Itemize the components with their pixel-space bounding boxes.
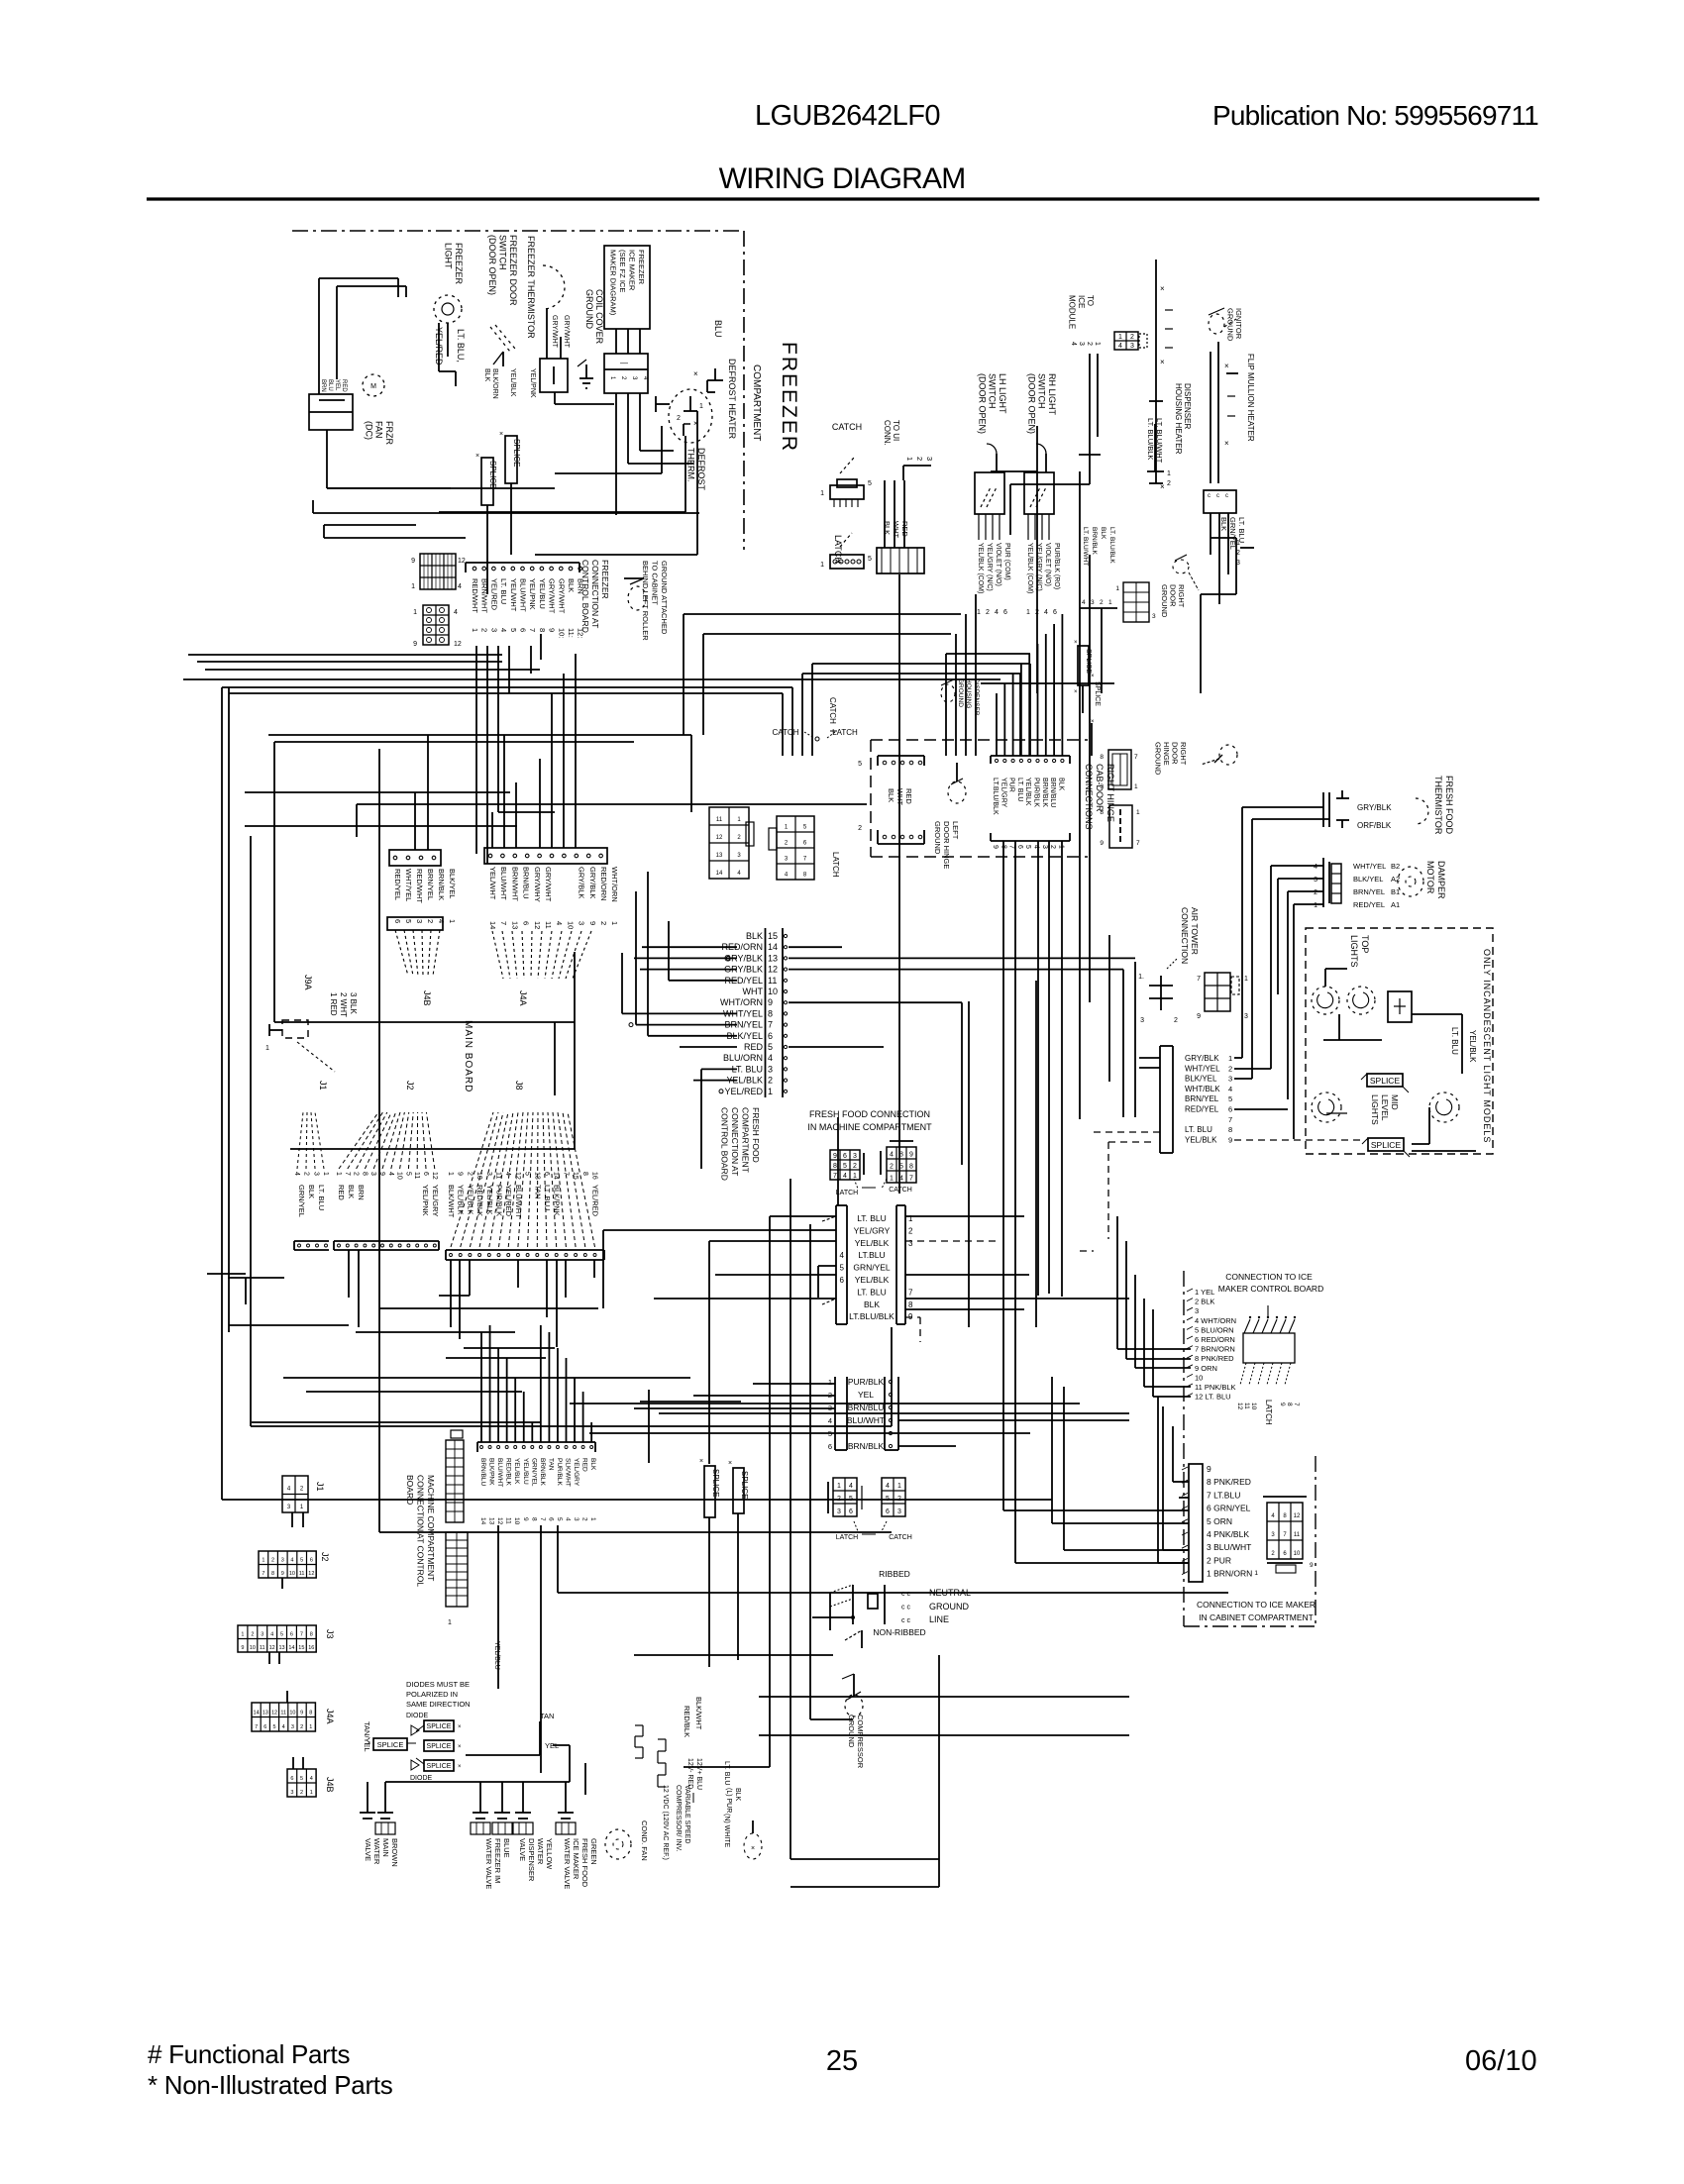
- wire: [1163, 1406, 1189, 1550]
- svg-text:LIGHTS: LIGHTS: [1349, 935, 1359, 968]
- J4B pin numbers: [387, 917, 457, 930]
- svg-text:DOOR HINGE: DOOR HINGE: [942, 821, 951, 869]
- svg-text:LGUB2642LF0: LGUB2642LF0: [755, 100, 940, 132]
- ground symbol: [624, 578, 646, 610]
- wire: [628, 463, 693, 465]
- J4B connector: [389, 850, 441, 866]
- water valve: [492, 1795, 512, 1834]
- svg-text:PUR (COM): PUR (COM): [1003, 543, 1010, 580]
- frzr fan label: [364, 421, 394, 445]
- svg-text:4 PNK/BLK: 4 PNK/BLK: [1207, 1529, 1249, 1539]
- svg-text:FREEZER: FREEZER: [454, 243, 464, 285]
- svg-text:8: 8: [530, 1517, 537, 1521]
- neutral ground line pins: [901, 1591, 910, 1624]
- svg-text:8: 8: [803, 872, 807, 878]
- damper labels: [1353, 862, 1400, 909]
- svg-text:# Functional Parts: # Functional Parts: [148, 2039, 350, 2069]
- run cap bulb: [744, 1820, 762, 1859]
- svg-text:7: 7: [499, 921, 508, 925]
- bus wire: [268, 735, 691, 812]
- J4A connector: [484, 848, 607, 864]
- to ice module pins: [1070, 342, 1101, 346]
- svg-text:TOP: TOP: [1360, 935, 1370, 953]
- svg-text:WATER: WATER: [536, 1838, 545, 1865]
- wire: [517, 1260, 519, 1288]
- svg-text:YEL/BLK (COM): YEL/BLK (COM): [977, 543, 984, 593]
- J2 label: [405, 1081, 415, 1091]
- svg-text:5: 5: [272, 1724, 275, 1730]
- svg-text:1: 1: [1026, 609, 1030, 616]
- svg-text:3: 3: [415, 919, 424, 923]
- wire: [905, 1215, 1024, 1217]
- blk/wht label: [694, 1697, 703, 1730]
- svg-text:IN MACHINE COMPARTMENT: IN MACHINE COMPARTMENT: [807, 1122, 932, 1132]
- bus wire: [812, 663, 1000, 665]
- lt blu label: [1450, 1027, 1459, 1055]
- bus wire: [207, 1274, 284, 1304]
- svg-text:4: 4: [310, 1776, 313, 1782]
- svg-text:CONNECTION AT: CONNECTION AT: [730, 1107, 740, 1176]
- svg-text:LT. BLU: LT. BLU: [857, 1213, 887, 1223]
- svg-text:2: 2: [300, 1790, 303, 1796]
- svg-text:c: c: [1225, 493, 1228, 499]
- svg-text:5: 5: [556, 1517, 563, 1521]
- svg-text:BLK: BLK: [1100, 527, 1106, 540]
- svg-text:IN CABINET COMPARTMENT: IN CABINET COMPARTMENT: [1199, 1612, 1314, 1622]
- svg-text:×: ×: [458, 1744, 462, 1750]
- svg-text:LATCH: LATCH: [833, 535, 843, 564]
- svg-text:10: 10: [1195, 1373, 1203, 1382]
- svg-text:9: 9: [457, 1172, 464, 1176]
- wire: [640, 969, 737, 971]
- svg-text:3: 3: [1271, 1532, 1275, 1538]
- footer page number: [826, 2045, 858, 2077]
- hatched connector 12pin: [411, 554, 466, 590]
- svg-text:LT. BLU: LT. BLU: [723, 1761, 730, 1785]
- air tower label: [1180, 907, 1200, 964]
- svg-text:BROWN: BROWN: [390, 1838, 399, 1867]
- svg-text:13: 13: [510, 921, 519, 929]
- wire: [1153, 1309, 1191, 1397]
- svg-text:13: 13: [488, 1517, 495, 1525]
- svg-text:GROUND: GROUND: [929, 1602, 969, 1612]
- svg-text:5: 5: [899, 1163, 903, 1170]
- freezer compartment boundary right: [743, 231, 745, 550]
- diode label 2: [410, 1775, 433, 1782]
- svg-text:YEL/RED: YEL/RED: [489, 578, 498, 611]
- svg-text:LATCH: LATCH: [832, 728, 858, 737]
- svg-text:5: 5: [843, 1163, 847, 1170]
- right hinge title: [1084, 764, 1115, 830]
- svg-text:4: 4: [737, 871, 741, 877]
- svg-text:RED/BLK: RED/BLK: [475, 1185, 484, 1216]
- wire: [789, 957, 1135, 959]
- svg-text:5: 5: [280, 1632, 283, 1638]
- svg-text:7: 7: [255, 1724, 258, 1730]
- svg-text:12 VDC (120V AC REF.): 12 VDC (120V AC REF.): [662, 1785, 669, 1860]
- svg-text:LT. BLU: LT. BLU: [317, 1185, 326, 1210]
- svg-text:GROUND: GROUND: [1225, 308, 1234, 342]
- svg-text:6: 6: [310, 1558, 313, 1564]
- wire: [938, 1655, 940, 1887]
- svg-text:2 WHT: 2 WHT: [339, 992, 348, 1017]
- svg-text:J1: J1: [318, 1081, 328, 1091]
- J8 connector bracket: [446, 1250, 604, 1260]
- bus wire: [945, 654, 947, 756]
- svg-text:YEL/GRY: YEL/GRY: [573, 1458, 579, 1487]
- wire: [905, 1274, 1029, 1276]
- svg-text:2: 2: [1100, 599, 1104, 606]
- J4A fanout: [492, 931, 591, 979]
- wire: [466, 1721, 540, 1755]
- svg-text:4: 4: [886, 1483, 890, 1490]
- svg-text:HOUSING HEATER: HOUSING HEATER: [1174, 383, 1183, 455]
- footer date: [1465, 2045, 1537, 2077]
- cab-door tl labels: [887, 788, 913, 805]
- svg-text:1: 1: [853, 1173, 857, 1180]
- svg-text:12: 12: [496, 1517, 503, 1525]
- svg-text:3: 3: [1195, 1306, 1199, 1315]
- svg-text:11: 11: [505, 1517, 512, 1524]
- svg-text:11: 11: [260, 1645, 265, 1651]
- right door hinge ground label: [1154, 742, 1189, 776]
- wire: [493, 1525, 500, 1689]
- svg-text:10: 10: [289, 1710, 295, 1716]
- svg-text:×: ×: [1074, 640, 1078, 646]
- svg-text:5: 5: [858, 761, 862, 768]
- frzr fan wire labels: [320, 379, 347, 392]
- svg-text:10: 10: [768, 987, 778, 996]
- wire: [1271, 866, 1294, 1139]
- svg-text:2: 2: [986, 609, 990, 616]
- svg-text:3: 3: [785, 856, 789, 862]
- wire: [531, 1422, 533, 1442]
- svg-text:2: 2: [785, 840, 789, 846]
- svg-text:8: 8: [899, 1151, 903, 1158]
- fresh food cb title: [720, 1107, 762, 1181]
- svg-text:(L) PUR: (L) PUR: [725, 1788, 732, 1813]
- svg-text:1: 1: [309, 1724, 312, 1730]
- svg-text:6: 6: [849, 1508, 853, 1515]
- wire: [789, 970, 1123, 1117]
- bus wire: [464, 1347, 555, 1349]
- wire: [1158, 1397, 1189, 1563]
- svg-text:YEL/BLU: YEL/BLU: [493, 1641, 500, 1670]
- incandescent label: [1482, 949, 1492, 1143]
- dispenser housing ground label: [957, 678, 980, 716]
- svg-text:2: 2: [853, 1163, 857, 1170]
- svg-text:* Non-Illustrated Parts: * Non-Illustrated Parts: [148, 2070, 393, 2100]
- bus wire: [1134, 962, 1136, 1117]
- svg-text:BLK/PNK: BLK/PNK: [488, 1458, 495, 1486]
- svg-text:×: ×: [1160, 284, 1165, 293]
- svg-text:1: 1: [411, 583, 415, 590]
- incandescent dashed box: [1306, 928, 1493, 1154]
- svg-text:CONNECTION AT: CONNECTION AT: [590, 560, 600, 628]
- card edge connector: [1100, 750, 1138, 790]
- svg-text:12: 12: [716, 835, 723, 841]
- bus wire: [791, 687, 793, 756]
- svg-text:11: 11: [716, 817, 723, 823]
- svg-text:FRESH FOOD CONNECTION: FRESH FOOD CONNECTION: [809, 1109, 930, 1119]
- freezer ice maker connector: [604, 354, 648, 393]
- svg-text:×: ×: [699, 1458, 703, 1465]
- svg-text:7: 7: [344, 1172, 351, 1176]
- svg-text:1: 1: [820, 490, 824, 497]
- svg-text:LT.BLU: LT.BLU: [858, 1250, 885, 1260]
- wire: [616, 393, 640, 515]
- svg-text:YEL/WHT: YEL/WHT: [488, 867, 497, 900]
- svg-text:c c: c c: [901, 1617, 910, 1624]
- compressor inv label: [675, 1785, 690, 1851]
- wire: [905, 1317, 920, 1342]
- svg-text:14: 14: [553, 1172, 560, 1180]
- svg-text:GROUND: GROUND: [957, 678, 964, 707]
- bus wire: [802, 673, 991, 675]
- svg-text:1: 1: [447, 1172, 454, 1176]
- svg-text:BLK: BLK: [1219, 517, 1228, 531]
- svg-text:SPLICE: SPLICE: [427, 1763, 452, 1770]
- machine 14pin numbers: [479, 1517, 596, 1525]
- wire: [622, 953, 737, 1013]
- svg-text:8: 8: [538, 628, 547, 632]
- svg-text:LEFT: LEFT: [951, 821, 960, 840]
- wire: [715, 1274, 836, 1276]
- n white label: [723, 1814, 730, 1848]
- svg-text:GROUND ATTACHED: GROUND ATTACHED: [660, 561, 669, 635]
- valve label brown: [364, 1838, 399, 1867]
- svg-text:(N) WHITE: (N) WHITE: [723, 1814, 730, 1848]
- svg-text:TO: TO: [1086, 295, 1095, 306]
- svg-text:6: 6: [768, 1031, 773, 1041]
- svg-text:LT. BLU: LT. BLU: [857, 1287, 887, 1297]
- svg-text:7 BRN/ORN: 7 BRN/ORN: [1195, 1345, 1235, 1354]
- wire: [898, 1445, 956, 1447]
- svg-text:WHT/ORN: WHT/ORN: [610, 867, 619, 902]
- ground label: [929, 1602, 969, 1612]
- J9A label: [303, 975, 313, 990]
- svg-text:3: 3: [261, 1632, 263, 1638]
- svg-text:GRY/WHY: GRY/WHY: [533, 867, 542, 902]
- bus wire: [379, 1531, 892, 1533]
- svg-text:3: 3: [1100, 783, 1104, 790]
- wire: [498, 646, 555, 812]
- damper connector: [1323, 858, 1341, 907]
- svg-text:J8: J8: [514, 1081, 524, 1091]
- svg-text:6: 6: [1016, 845, 1023, 849]
- svg-text:3: 3: [291, 1724, 294, 1730]
- wire: [719, 1090, 723, 1093]
- svg-text:BRN: BRN: [320, 379, 326, 392]
- bus wire: [251, 1425, 892, 1427]
- svg-text:7: 7: [562, 1172, 569, 1176]
- svg-text:2: 2: [300, 1724, 303, 1730]
- bus wire: [589, 1432, 1030, 1434]
- J2 connector labels: [337, 1185, 440, 1216]
- svg-text:BLK/WHT: BLK/WHT: [694, 1697, 703, 1730]
- wire: [1271, 866, 1323, 904]
- catch label: [832, 422, 862, 432]
- ice cabinet title: [1197, 1600, 1316, 1622]
- bus wire: [252, 1421, 541, 1423]
- J2 table label: [320, 1552, 330, 1562]
- svg-text:12: 12: [514, 1172, 521, 1180]
- svg-text:3: 3: [631, 376, 637, 380]
- J1 fanout: [297, 1112, 324, 1169]
- svg-text:COMPRESSOR: COMPRESSOR: [856, 1715, 865, 1769]
- machine conn grid right: [882, 1478, 905, 1516]
- bus wire: [554, 1022, 556, 1095]
- svg-text:VIOLET (N/O): VIOLET (N/O): [995, 543, 1001, 586]
- red/blk label: [683, 1706, 691, 1737]
- ice maker board symbol: [1240, 1305, 1296, 1385]
- svg-text:6: 6: [543, 1172, 550, 1176]
- bus wire: [968, 1001, 970, 1327]
- wire: [1135, 1275, 1191, 1368]
- machine 14pin pins: [480, 1446, 593, 1449]
- fresh food cb pins: [784, 934, 787, 1092]
- svg-text:LIGHT: LIGHT: [444, 243, 454, 269]
- bus wire: [991, 674, 1020, 756]
- svg-text:BRN/BLU: BRN/BLU: [479, 1458, 486, 1486]
- svg-text:GROUND: GROUND: [933, 821, 942, 855]
- svg-text:14: 14: [488, 921, 497, 929]
- wire: [654, 1299, 836, 1304]
- non-ribbed label: [873, 1627, 925, 1637]
- svg-text:10: 10: [396, 1172, 403, 1180]
- svg-text:LINE: LINE: [929, 1614, 949, 1624]
- svg-text:J4B: J4B: [325, 1777, 335, 1793]
- valve drop wires: [385, 1763, 585, 1795]
- bus wire: [274, 1021, 575, 1023]
- air tower sym2: [1197, 973, 1248, 1020]
- svg-text:THERM.: THERM.: [686, 448, 696, 482]
- svg-text:SPLICE: SPLICE: [1371, 1140, 1402, 1150]
- svg-text:GRN/YEL: GRN/YEL: [853, 1263, 891, 1273]
- svg-text:SPLICE: SPLICE: [488, 461, 497, 488]
- svg-text:WATER: WATER: [372, 1838, 381, 1865]
- svg-text:BLK/YEL: BLK/YEL: [448, 869, 457, 898]
- svg-text:FRESH FOOD: FRESH FOOD: [1444, 776, 1454, 835]
- svg-text:1: 1: [413, 609, 417, 616]
- svg-text:11: 11: [495, 1172, 502, 1179]
- svg-text:YEL/BLK: YEL/BLK: [1185, 1135, 1217, 1144]
- J8 connector labels: [447, 1185, 600, 1218]
- svg-text:3: 3: [1152, 613, 1156, 620]
- svg-text:GRN/YEL: GRN/YEL: [530, 1458, 537, 1487]
- tan label: [540, 1712, 554, 1720]
- damper pins: [1314, 864, 1317, 909]
- svg-text:BLK: BLK: [347, 1185, 356, 1198]
- bus wire: [570, 1403, 1080, 1404]
- freezer cb pin numbers: [471, 628, 585, 638]
- svg-text:1: 1: [977, 609, 981, 616]
- svg-text:1: 1: [609, 376, 615, 380]
- svg-text:4: 4: [270, 1632, 273, 1638]
- svg-text:BRN: BRN: [357, 1185, 366, 1200]
- svg-text:14: 14: [288, 1645, 294, 1651]
- hatched connector 12pin b: [413, 605, 462, 648]
- freezer thermistor body: [540, 359, 568, 392]
- svg-text:3: 3: [1140, 1017, 1144, 1024]
- wire: [553, 1745, 570, 1782]
- svg-text:1: 1: [1094, 342, 1101, 346]
- svg-text:4: 4: [290, 1558, 293, 1564]
- svg-text:12: 12: [1236, 1403, 1243, 1410]
- svg-text:c c: c c: [901, 1591, 910, 1598]
- svg-text:1: 1: [905, 457, 914, 461]
- wire: [1234, 1139, 1365, 1141]
- cab-door connector top-left: [858, 756, 924, 768]
- ice maker board pin numbers: [1236, 1403, 1300, 1410]
- freezer cb pin labels: [471, 578, 585, 614]
- diode symbols: [407, 1725, 419, 1770]
- svg-text:4: 4: [499, 628, 508, 632]
- svg-text:c c: c c: [901, 1605, 910, 1612]
- ice maker dash boundary right: [1184, 1456, 1316, 1626]
- wire: [450, 1260, 452, 1327]
- ignitor ground label: [1225, 308, 1243, 342]
- svg-text:2: 2: [300, 1486, 304, 1492]
- ice maker dash boundary left: [1183, 1271, 1185, 1626]
- footer functional parts: [148, 2039, 350, 2069]
- svg-text:25: 25: [826, 2045, 858, 2077]
- main board label: [463, 1020, 474, 1092]
- wire: [319, 278, 398, 394]
- svg-text:COMPARTMENT: COMPARTMENT: [751, 364, 762, 441]
- bus wire: [197, 661, 502, 663]
- svg-text:2: 2: [897, 1496, 901, 1503]
- defrost heater symbol: [693, 368, 723, 428]
- wire: [1061, 841, 1063, 1297]
- ice cabinet grid: [1254, 1497, 1314, 1577]
- svg-text:B1: B1: [1391, 887, 1400, 896]
- svg-text:9: 9: [909, 1151, 913, 1158]
- svg-text:FREEZER: FREEZER: [637, 250, 646, 285]
- wire: [555, 426, 662, 473]
- svg-text:VIOLET (N/O): VIOLET (N/O): [1044, 543, 1051, 586]
- machine hatched connector 1: [446, 1430, 464, 1522]
- svg-text:RED/YEL: RED/YEL: [393, 869, 402, 900]
- J4B label: [422, 990, 432, 1006]
- J2 connector numbers: [335, 1172, 438, 1180]
- svg-text:FRESH FOOD: FRESH FOOD: [751, 1107, 761, 1163]
- wire: [357, 804, 867, 837]
- ice module connector: [1114, 332, 1147, 350]
- svg-text:FLIP MULLION HEATER: FLIP MULLION HEATER: [1246, 354, 1255, 442]
- svg-text:LT. BLU: LT. BLU: [1185, 1125, 1212, 1134]
- wire: [1094, 1131, 1160, 1133]
- bus wire: [228, 687, 230, 1332]
- wire: [905, 1308, 1024, 1310]
- svg-text:3: 3: [908, 1239, 913, 1248]
- mid level lights label: [1370, 1094, 1400, 1125]
- wire: [367, 1782, 368, 1795]
- svg-text:12V+ BLU: 12V+ BLU: [695, 1758, 702, 1790]
- svg-text:6: 6: [290, 1776, 293, 1782]
- svg-text:13: 13: [716, 853, 723, 859]
- wire: [546, 1260, 548, 1317]
- svg-text:2: 2: [251, 1632, 254, 1638]
- wire: [1012, 674, 1014, 756]
- 12v labels: [686, 1758, 702, 1803]
- svg-text:BLK: BLK: [589, 1458, 596, 1471]
- svg-text:YEL/GRY: YEL/GRY: [431, 1185, 440, 1216]
- svg-text:BRN/YEL: BRN/YEL: [1353, 887, 1385, 896]
- svg-text:WHT: WHT: [892, 521, 900, 538]
- J2 table: [259, 1551, 316, 1589]
- svg-text:6: 6: [840, 1276, 845, 1285]
